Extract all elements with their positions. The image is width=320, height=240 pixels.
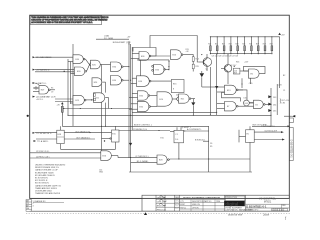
output arrow BUS DATA [176,94,184,101]
svg-text:+15V: +15V [244,61,249,63]
resistor R15 [192,61,199,71]
svg-text:DESCRIPTION: DESCRIPTION [192,201,204,203]
nand gate E25 [73,95,86,105]
svg-text:E7: E7 [227,106,229,108]
wire: long horizontal nets [62,54,271,172]
or gate E21a [86,93,108,109]
notes list bottom-left [35,164,66,196]
svg-text:PROJ dT: PROJ dT [157,209,167,211]
svg-text:ACCORDINGLY AND IS THE EXCLUSI: ACCORDINGLY AND IS THE EXCLUSIVE PROPERT… [31,21,93,24]
diode D15 [268,109,276,113]
svg-text:REV: REV [282,205,286,207]
resistor pull-up network R21-R30 [208,36,279,54]
svg-text:E26: E26 [92,65,95,67]
svg-text:D14: D14 [273,104,276,106]
svg-text:BUS B CONTROL L: BUS B CONTROL L [134,125,153,127]
svg-text:D BS M7821-0-1: D BS M7821-0-1 [246,205,267,209]
net J2 PAUSE (1) H [119,128,170,140]
net BUS OUT DATA L [252,123,290,127]
svg-text:E35: E35 [140,106,143,108]
nand gate E36 with feedback loop [133,48,170,61]
revision strip [26,198,290,213]
label R16 +15V [236,61,249,63]
flip-flop E18 [57,126,116,149]
nand gate E13a latch [225,85,244,94]
svg-text:digital: digital [225,201,238,206]
collector wire Q1 down [210,67,211,116]
svg-text:R28: R28 [263,43,266,45]
terminal box right border [284,115,295,123]
svg-text:E14: E14 [245,103,248,105]
svg-text:PART NO: PART NO [204,200,212,203]
net OUT B CLK L [254,139,285,141]
wire Q1 base feed [150,36,199,63]
svg-text:+3V BA SRD D: +3V BA SRD D [36,68,50,71]
svg-text:OUT B CLK H: OUT B CLK H [265,130,278,132]
svg-text:PRODUCTION: PRODUCTION [226,197,238,199]
svg-text:E2: E2 [256,104,258,106]
nand gate E35b [138,101,158,111]
svg-text:C E5: C E5 [249,83,253,85]
svg-text:8: 8 [173,89,174,91]
svg-text:D13: D13 [273,97,276,99]
nand gate E35a [138,91,158,100]
svg-text:E15: E15 [161,138,164,140]
nand gate E34a [111,62,130,71]
net J2 THROW 1 L [118,156,157,158]
svg-text:E3,E8,E9 ARE 7400N: E3,E8,E9 ARE 7400N [35,171,54,174]
diode D10 on vertical [215,86,218,89]
capacitor network C20 R19 [233,65,240,75]
svg-text:ENG JhP: ENG JhP [157,205,167,207]
svg-text:C1: C1 [283,90,285,92]
net OUT B CLK H [254,130,284,133]
svg-text:SHEET 1 OF 2: SHEET 1 OF 2 [246,210,258,212]
diode D12 [191,99,195,116]
label LOAD P.O. DATA [104,35,114,40]
svg-text:R26: R26 [249,43,252,45]
svg-text:+3V: +3V [281,35,285,37]
nand gate E7 latch [217,87,254,111]
svg-text:OUT DATA (0) L: OUT DATA (0) L [76,136,91,139]
one-shot gate E6 with feedback loop [240,66,265,88]
brace node +15V out [278,85,291,105]
handwritten note below title block [228,212,287,220]
svg-text:CHK bC: CHK bC [157,201,165,203]
nand gate E30 [73,55,85,64]
net BIG DATA L [131,160,157,163]
or gate E2 [254,100,272,108]
svg-text:C21 C22 C23 C24 C25 C26: C21 C22 C23 C24 C25 C26 C27 C28 [212,56,239,58]
svg-text:E21: E21 [96,98,99,100]
svg-text:E33: E33 [156,69,159,71]
svg-text:J2 PAUSE (1) H: J2 PAUSE (1) H [133,128,148,131]
svg-text:R20: R20 [208,43,211,45]
diode D9 [104,140,132,145]
diode D13 [268,95,276,99]
vertical +15V feed [276,84,278,115]
sheet border frame [30,15,290,198]
svg-text:R19: R19 [234,73,237,75]
net OUT DATA (1) H [64,130,111,133]
svg-text:J2 SYNC CLK L: J2 SYNC CLK L [36,151,50,153]
svg-text:CAPACITORS ARE .01 UF: CAPACITORS ARE .01 UF [35,169,58,172]
nand gate E33 [112,60,170,76]
svg-text:C 1: C 1 [175,134,178,136]
svg-text:+15V: +15V [278,85,283,87]
svg-text:D15: D15 [244,98,247,100]
svg-text:D9: D9 [210,143,212,145]
svg-text:PDP-11: PDP-11 [180,207,186,209]
svg-text:BUS A START (1) H: BUS A START (1) H [113,41,131,44]
gate input stub wires [68,54,225,110]
svg-text:CAPACITORS ARE 100PF, 5%: CAPACITORS ARE 100PF, 5% [35,184,61,187]
svg-text:E13,E16 ARE 74H00 N: E13,E16 ARE 74H00 N [35,174,55,177]
diode D11 [200,71,217,87]
svg-text:D2: D2 [176,94,178,96]
signature rows [156,198,180,200]
svg-text:E29: E29 [41,90,44,92]
svg-text:C WAIT D L: C WAIT D L [36,82,47,85]
svg-text:D15: D15 [273,111,276,113]
pullup resistor R1 [57,102,64,115]
svg-text:E26: E26 [94,82,97,84]
or gate E26a [64,59,111,151]
svg-text:E25: E25 [76,100,79,102]
svg-text:BUS OUT DATA L: BUS OUT DATA L [253,123,268,126]
svg-text:DIGITAL EQUIPMENT CORPORATION: DIGITAL EQUIPMENT CORPORATION [183,197,221,200]
wire: left vertical bus [62,44,73,126]
svg-text:GH: GH [26,208,29,210]
svg-text:FIRST: FIRST [180,204,185,206]
svg-text:+3V: +3V [57,104,61,106]
+3V stub at bus top [96,37,131,45]
+3V supply node at resistor network [278,33,285,88]
svg-text:+3V: +3V [186,51,190,53]
digital logo [225,196,245,201]
svg-text:R24: R24 [236,43,239,45]
svg-text:OUT DATA (1) H: OUT DATA (1) H [75,130,90,133]
svg-text:R9: R9 [210,146,212,148]
svg-text:Q2: Q2 [230,65,232,67]
svg-text:E16: E16 [173,84,176,86]
zone marker dot left border [27,115,29,117]
input port BA SRD D [33,68,75,71]
svg-text:R22: R22 [222,43,225,45]
input port C WAIT D L [33,82,48,92]
svg-text:OPTION: OPTION [192,207,199,209]
svg-text:+3V D L: +3V D L [36,99,44,101]
svg-text:TRANSISTORS ARE 2N4258: TRANSISTORS ARE 2N4258 [35,192,60,195]
svg-text:E24: E24 [160,99,163,101]
svg-text:R16: R16 [236,61,239,63]
transistor Q2 [221,54,232,84]
svg-text:R23: R23 [229,43,232,45]
svg-text:3-9-71: 3-9-71 [175,207,180,209]
svg-text:+3V: +3V [127,37,131,39]
input port TTL IN SRCLK D [33,132,57,135]
input port TTL A SER L [34,139,57,143]
label R13 pull-up [186,49,190,53]
svg-text:outst for e/w′: outst for e/w′ [228,212,243,216]
svg-text:E6: E6 [251,74,253,76]
svg-text:R29: R29 [270,43,273,45]
svg-text:E36: E36 [141,56,144,58]
svg-text:E18: E18 [58,134,61,136]
label BUS A START [113,41,131,44]
svg-text:RESISTORS ARE 1/4W; 5%: RESISTORS ARE 1/4W; 5% [35,166,59,169]
vertical drawing number box on right border [289,128,293,161]
nand gate E21b [171,80,195,104]
svg-text:R21: R21 [215,43,218,45]
or gate E23 [171,50,194,60]
title block [142,195,289,212]
svg-text:E5: E5 [247,133,249,135]
notes box top-left [30,16,109,25]
svg-text:TTL A SER L: TTL A SER L [37,140,49,143]
svg-text:E26: E26 [103,156,106,158]
svg-text:UNLESS OTHERWISE INDICATED:: UNLESS OTHERWISE INDICATED: [35,164,66,167]
svg-text:TRANS ARE DEC 3639 B: TRANS ARE DEC 3639 B [35,187,57,190]
svg-text:C E5: C E5 [281,102,285,104]
nand gate E28 [157,155,170,164]
svg-text:M7821: M7821 [264,201,272,204]
svg-text:E15: E15 [112,134,115,136]
svg-text:R5: R5 [51,88,53,90]
svg-text:E35: E35 [140,95,143,97]
svg-text:E34: E34 [113,67,116,69]
transistor Q1 [199,54,212,71]
input port J2 LOAD DATA D [33,56,73,59]
resistor R14 [192,54,199,61]
flip-flop E5 [239,125,276,159]
or gate E26c [30,151,118,161]
svg-text:3: 3 [33,206,34,208]
flip-flop E15b [170,127,185,159]
nand gate E29 [35,86,55,94]
svg-text:USED ON: USED ON [192,204,200,206]
or gate E24 [157,92,176,106]
svg-text:ƒ: ƒ [285,216,287,220]
svg-text:D 0: D 0 [175,139,178,141]
svg-text:E13: E13 [227,90,230,92]
svg-text:J2 LOAD DATA D: J2 LOAD DATA D [36,56,52,59]
flip-flop E15a [102,126,120,149]
arrow marker bottom-left of title block [144,212,147,215]
or gate E26b [92,78,106,87]
svg-text:GND: GND [99,172,104,174]
svg-text:E34: E34 [113,80,116,82]
net OUT DATA (0) L [64,136,95,139]
wire: main vertical bus x130 [129,41,132,172]
svg-text:1 1 1 1 1 1 1: 1 1 1 1 1 1 1 [272,210,284,212]
svg-text:DRN Mw: DRN Mw [157,197,166,199]
diode D14 [268,103,276,107]
nand gate E34b [111,76,130,85]
svg-text:DIODES ARE D664: DIODES ARE D664 [35,190,52,193]
svg-text:R25: R25 [242,43,245,45]
svg-text:D-BS-M7821-0-1: D-BS-M7821-0-1 [289,140,292,159]
svg-text:E30: E30 [76,59,79,61]
input port J2 DATA WAIT [33,95,73,101]
label C14 GND [99,169,104,173]
right border label stubs [283,75,285,92]
svg-text:E23: E23 [173,55,176,57]
svg-text:ITEM: ITEM [216,201,221,203]
svg-text:TTL IN SRCLK D: TTL IN SRCLK D [36,133,52,135]
svg-text:E36: E36 [139,81,142,83]
nand gate E36b [137,76,172,87]
svg-text:E30: E30 [77,71,80,73]
svg-text:Jcom: Jcom [263,212,270,216]
svg-text:B2: B2 [283,75,285,77]
net A CLR RESET L [181,127,212,148]
nand gate E30b [75,67,87,76]
svg-text:R15: R15 [196,66,199,68]
svg-text:R27: R27 [256,43,259,45]
svg-text:J2 PROC CLK L: J2 PROC CLK L [36,156,50,158]
svg-text:C9: C9 [51,92,53,94]
svg-text:E28: E28 [159,160,162,162]
svg-text:(1) WON'T L: (1) WON'T L [181,127,191,129]
svg-text:E21: E21 [181,99,184,101]
